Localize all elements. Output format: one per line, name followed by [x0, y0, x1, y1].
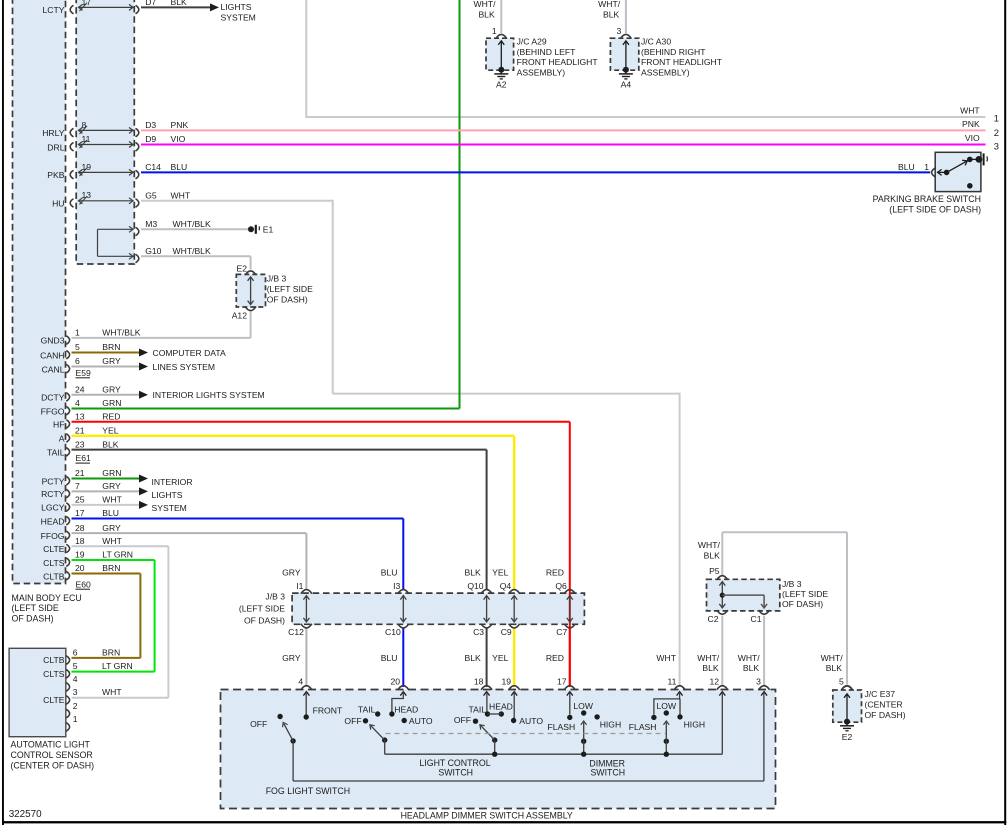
svg-text:AUTO: AUTO	[409, 716, 433, 726]
svg-text:WHT/BLK: WHT/BLK	[102, 328, 140, 338]
svg-text:HIGH: HIGH	[600, 720, 621, 730]
svg-text:FLASH: FLASH	[629, 722, 657, 732]
svg-text:VIO: VIO	[171, 134, 186, 144]
svg-text:Q4: Q4	[500, 581, 512, 591]
svg-text:OF DASH): OF DASH)	[244, 616, 285, 626]
svg-text:17: 17	[82, 0, 92, 7]
svg-text:OFF: OFF	[250, 719, 267, 729]
svg-text:(CENTER OF DASH): (CENTER OF DASH)	[11, 760, 95, 770]
svg-text:(LEFT SIDE: (LEFT SIDE	[239, 604, 285, 614]
svg-text:OF DASH): OF DASH)	[267, 294, 308, 304]
svg-text:BLK: BLK	[478, 10, 495, 20]
svg-text:HEAD: HEAD	[394, 705, 418, 715]
svg-text:E59: E59	[76, 368, 92, 378]
svg-text:8: 8	[82, 120, 87, 130]
svg-text:WHT/: WHT/	[474, 0, 497, 9]
svg-text:VIO: VIO	[965, 133, 980, 143]
svg-text:LOW: LOW	[657, 701, 677, 711]
svg-text:1: 1	[924, 162, 929, 172]
svg-text:BLU: BLU	[102, 508, 119, 518]
svg-text:(LEFT SIDE: (LEFT SIDE	[12, 603, 59, 613]
svg-text:HEADLAMP DIMMER SWITCH ASSEMBL: HEADLAMP DIMMER SWITCH ASSEMBLY	[401, 811, 573, 821]
svg-text:1: 1	[75, 328, 80, 338]
svg-text:(LEFT SIDE: (LEFT SIDE	[267, 284, 313, 294]
svg-text:M3: M3	[145, 219, 157, 229]
svg-text:SWITCH: SWITCH	[438, 767, 473, 777]
svg-text:11: 11	[667, 676, 676, 686]
svg-text:INTERIOR: INTERIOR	[152, 477, 193, 487]
svg-text:20: 20	[75, 563, 85, 573]
svg-text:Q10: Q10	[467, 581, 483, 591]
svg-text:C1: C1	[751, 614, 762, 624]
svg-text:LINES SYSTEM: LINES SYSTEM	[153, 362, 216, 372]
svg-text:3: 3	[617, 26, 622, 36]
svg-text:WHT/BLK: WHT/BLK	[173, 246, 211, 256]
svg-text:SYSTEM: SYSTEM	[152, 503, 187, 513]
svg-text:28: 28	[75, 523, 85, 533]
svg-text:D9: D9	[145, 134, 156, 144]
svg-text:WHT: WHT	[960, 106, 980, 116]
svg-text:4: 4	[73, 674, 78, 684]
svg-text:WHT: WHT	[656, 653, 676, 663]
svg-text:C3: C3	[473, 627, 484, 637]
svg-text:HF: HF	[53, 420, 64, 430]
svg-text:RCTY: RCTY	[41, 489, 65, 499]
svg-text:20: 20	[391, 676, 401, 686]
svg-text:E2: E2	[842, 732, 853, 742]
svg-text:J/C A30: J/C A30	[641, 37, 671, 47]
svg-text:5: 5	[75, 342, 80, 352]
svg-text:GRY: GRY	[102, 481, 121, 491]
svg-text:RED: RED	[546, 653, 564, 663]
svg-text:GRY: GRY	[102, 356, 121, 366]
svg-text:I3: I3	[393, 581, 400, 591]
svg-text:CONTROL SENSOR: CONTROL SENSOR	[11, 750, 93, 760]
svg-text:19: 19	[75, 550, 85, 560]
svg-text:E1: E1	[263, 225, 274, 235]
svg-text:(CENTER: (CENTER	[865, 700, 903, 710]
svg-text:5: 5	[73, 661, 78, 671]
svg-text:3: 3	[73, 687, 78, 697]
svg-text:HU: HU	[52, 199, 64, 209]
svg-text:1: 1	[994, 113, 999, 124]
svg-text:E60: E60	[76, 579, 92, 589]
svg-text:BLK: BLK	[702, 663, 719, 673]
svg-text:CLTS: CLTS	[43, 558, 65, 568]
svg-text:WHT/: WHT/	[598, 0, 621, 9]
svg-text:12: 12	[710, 676, 720, 686]
svg-text:CLTB: CLTB	[43, 571, 65, 581]
svg-text:D7: D7	[145, 0, 156, 7]
svg-text:YEL: YEL	[492, 653, 508, 663]
svg-text:A2: A2	[496, 80, 507, 90]
svg-text:TAIL: TAIL	[358, 704, 376, 714]
svg-text:HEAD: HEAD	[41, 516, 65, 526]
svg-text:13: 13	[75, 411, 85, 421]
svg-text:GRN: GRN	[102, 468, 121, 478]
svg-text:Q6: Q6	[555, 581, 567, 591]
svg-text:HEAD: HEAD	[489, 701, 513, 711]
svg-text:PNK: PNK	[962, 119, 980, 129]
svg-text:AUTO: AUTO	[519, 716, 543, 726]
svg-text:LOW: LOW	[573, 701, 593, 711]
svg-text:P5: P5	[709, 566, 720, 576]
svg-text:BLU: BLU	[898, 162, 915, 172]
svg-text:G10: G10	[145, 246, 161, 256]
svg-text:WHT/: WHT/	[697, 653, 720, 663]
svg-text:BRN: BRN	[102, 647, 120, 657]
svg-text:YEL: YEL	[102, 426, 118, 436]
svg-text:PCTY: PCTY	[42, 476, 65, 486]
svg-text:BLU: BLU	[381, 568, 398, 578]
svg-text:CLTB: CLTB	[43, 655, 65, 665]
svg-text:WHT/BLK: WHT/BLK	[173, 219, 211, 229]
svg-text:TAIL: TAIL	[468, 704, 486, 714]
svg-text:FLASH: FLASH	[547, 722, 575, 732]
svg-text:LIGHT CONTROL: LIGHT CONTROL	[419, 758, 490, 768]
svg-text:CLTS: CLTS	[43, 669, 65, 679]
svg-text:HRLY: HRLY	[42, 128, 65, 138]
svg-text:BLK: BLK	[102, 439, 119, 449]
svg-text:A: A	[59, 434, 65, 444]
svg-text:WHT/: WHT/	[821, 653, 844, 663]
svg-text:17: 17	[557, 676, 567, 686]
svg-text:1: 1	[73, 714, 78, 724]
svg-text:WHT: WHT	[102, 687, 122, 697]
svg-text:19: 19	[501, 676, 511, 686]
svg-text:SYSTEM: SYSTEM	[221, 12, 256, 22]
svg-text:SWITCH: SWITCH	[590, 767, 625, 777]
svg-text:RED: RED	[102, 411, 120, 421]
svg-text:GRY: GRY	[282, 568, 301, 578]
svg-text:PNK: PNK	[171, 120, 189, 130]
svg-text:GND3: GND3	[41, 336, 65, 346]
svg-text:OFF: OFF	[454, 715, 471, 725]
svg-text:AUTOMATIC LIGHT: AUTOMATIC LIGHT	[11, 740, 91, 750]
svg-text:(LEFT SIDE: (LEFT SIDE	[782, 589, 828, 599]
svg-text:I1: I1	[296, 581, 303, 591]
svg-text:19: 19	[82, 162, 92, 172]
svg-text:21: 21	[75, 468, 85, 478]
svg-text:WHT: WHT	[102, 536, 122, 546]
svg-text:(BEHIND LEFT: (BEHIND LEFT	[517, 47, 576, 57]
svg-text:FRONT: FRONT	[313, 705, 343, 715]
svg-text:21: 21	[75, 426, 85, 436]
svg-text:BRN: BRN	[102, 563, 120, 573]
svg-text:E2: E2	[236, 264, 247, 274]
svg-text:BLK: BLK	[704, 550, 721, 560]
svg-text:HIGH: HIGH	[684, 720, 705, 730]
svg-text:BLU: BLU	[171, 162, 188, 172]
svg-text:11: 11	[82, 134, 91, 144]
svg-text:FOG LIGHT SWITCH: FOG LIGHT SWITCH	[266, 786, 350, 796]
svg-text:18: 18	[75, 536, 85, 546]
svg-text:3: 3	[994, 140, 999, 151]
svg-text:3: 3	[756, 676, 761, 686]
svg-text:DCTY: DCTY	[41, 393, 65, 403]
svg-text:FRONT HEADLIGHT: FRONT HEADLIGHT	[517, 57, 599, 67]
svg-text:5: 5	[839, 676, 844, 686]
svg-text:BLK: BLK	[465, 568, 482, 578]
svg-text:OF DASH): OF DASH)	[865, 710, 906, 720]
svg-text:G5: G5	[145, 190, 157, 200]
svg-text:A12: A12	[232, 310, 248, 320]
svg-text:C7: C7	[556, 627, 567, 637]
svg-text:WHT: WHT	[171, 190, 191, 200]
svg-text:322570: 322570	[9, 809, 42, 820]
svg-text:4: 4	[75, 398, 80, 408]
svg-text:BLU: BLU	[381, 653, 398, 663]
svg-text:13: 13	[82, 190, 92, 200]
svg-text:CANL: CANL	[42, 364, 65, 374]
svg-text:J/B 3: J/B 3	[265, 592, 285, 602]
svg-text:DRL: DRL	[47, 142, 64, 152]
svg-text:(LEFT SIDE OF DASH): (LEFT SIDE OF DASH)	[889, 204, 981, 214]
svg-text:C12: C12	[288, 627, 304, 637]
svg-text:YEL: YEL	[492, 568, 508, 578]
svg-text:J/B 3: J/B 3	[782, 579, 802, 589]
svg-text:OFF: OFF	[344, 716, 361, 726]
svg-text:17: 17	[75, 508, 85, 518]
svg-text:FFOG: FFOG	[41, 531, 65, 541]
svg-text:WHT/: WHT/	[738, 653, 761, 663]
svg-text:1: 1	[492, 26, 497, 36]
svg-text:23: 23	[75, 439, 85, 449]
svg-text:GRY: GRY	[282, 653, 301, 663]
svg-text:BLK: BLK	[171, 0, 188, 7]
svg-text:J/C A29: J/C A29	[517, 37, 547, 47]
svg-text:18: 18	[474, 676, 484, 686]
svg-text:E61: E61	[76, 453, 92, 463]
svg-text:J/C E37: J/C E37	[865, 689, 896, 699]
svg-text:BRN: BRN	[102, 342, 120, 352]
svg-text:LGCY: LGCY	[41, 503, 65, 513]
svg-text:COMPUTER DATA: COMPUTER DATA	[153, 348, 226, 358]
svg-text:TAIL: TAIL	[47, 447, 65, 457]
svg-text:INTERIOR LIGHTS SYSTEM: INTERIOR LIGHTS SYSTEM	[153, 390, 265, 400]
svg-text:OF DASH): OF DASH)	[782, 599, 823, 609]
svg-text:PARKING BRAKE SWITCH: PARKING BRAKE SWITCH	[873, 194, 981, 204]
svg-text:LIGHTS: LIGHTS	[152, 490, 183, 500]
svg-text:C14: C14	[145, 162, 161, 172]
svg-text:CANH: CANH	[40, 350, 64, 360]
svg-text:ASSEMBLY): ASSEMBLY)	[517, 68, 566, 78]
svg-text:C10: C10	[385, 627, 401, 637]
svg-text:2: 2	[73, 701, 78, 711]
svg-text:C9: C9	[501, 627, 512, 637]
svg-text:LIGHTS: LIGHTS	[221, 2, 252, 12]
svg-text:BLK: BLK	[826, 663, 843, 673]
svg-text:LCTY: LCTY	[43, 5, 65, 15]
svg-text:25: 25	[75, 495, 85, 505]
svg-text:D3: D3	[145, 120, 156, 130]
svg-text:WHT: WHT	[102, 495, 122, 505]
svg-text:4: 4	[298, 676, 303, 686]
svg-text:A4: A4	[621, 80, 632, 90]
svg-text:PKB: PKB	[47, 170, 64, 180]
svg-text:CLTE: CLTE	[43, 544, 65, 554]
svg-text:BLK: BLK	[743, 663, 760, 673]
svg-text:GRY: GRY	[102, 384, 121, 394]
svg-text:(BEHIND RIGHT: (BEHIND RIGHT	[641, 47, 706, 57]
svg-text:LT GRN: LT GRN	[102, 550, 133, 560]
svg-text:GRN: GRN	[102, 398, 121, 408]
svg-text:ASSEMBLY): ASSEMBLY)	[641, 68, 690, 78]
svg-text:6: 6	[75, 356, 80, 366]
svg-text:CLTE: CLTE	[43, 695, 65, 705]
svg-text:MAIN BODY ECU: MAIN BODY ECU	[12, 593, 82, 603]
svg-text:LT GRN: LT GRN	[102, 661, 133, 671]
svg-text:OF DASH): OF DASH)	[12, 613, 54, 623]
svg-text:RED: RED	[546, 568, 564, 578]
svg-text:J/B 3: J/B 3	[267, 274, 287, 284]
svg-text:7: 7	[75, 481, 80, 491]
svg-text:24: 24	[75, 384, 85, 394]
svg-text:BLK: BLK	[465, 653, 482, 663]
svg-text:6: 6	[73, 647, 78, 657]
svg-text:FFGO: FFGO	[41, 406, 65, 416]
svg-text:BLK: BLK	[603, 10, 620, 20]
svg-text:C2: C2	[708, 614, 719, 624]
svg-text:2: 2	[994, 127, 999, 138]
svg-text:WHT/: WHT/	[698, 540, 721, 550]
svg-text:GRY: GRY	[102, 523, 121, 533]
svg-text:FRONT HEADLIGHT: FRONT HEADLIGHT	[641, 57, 723, 67]
